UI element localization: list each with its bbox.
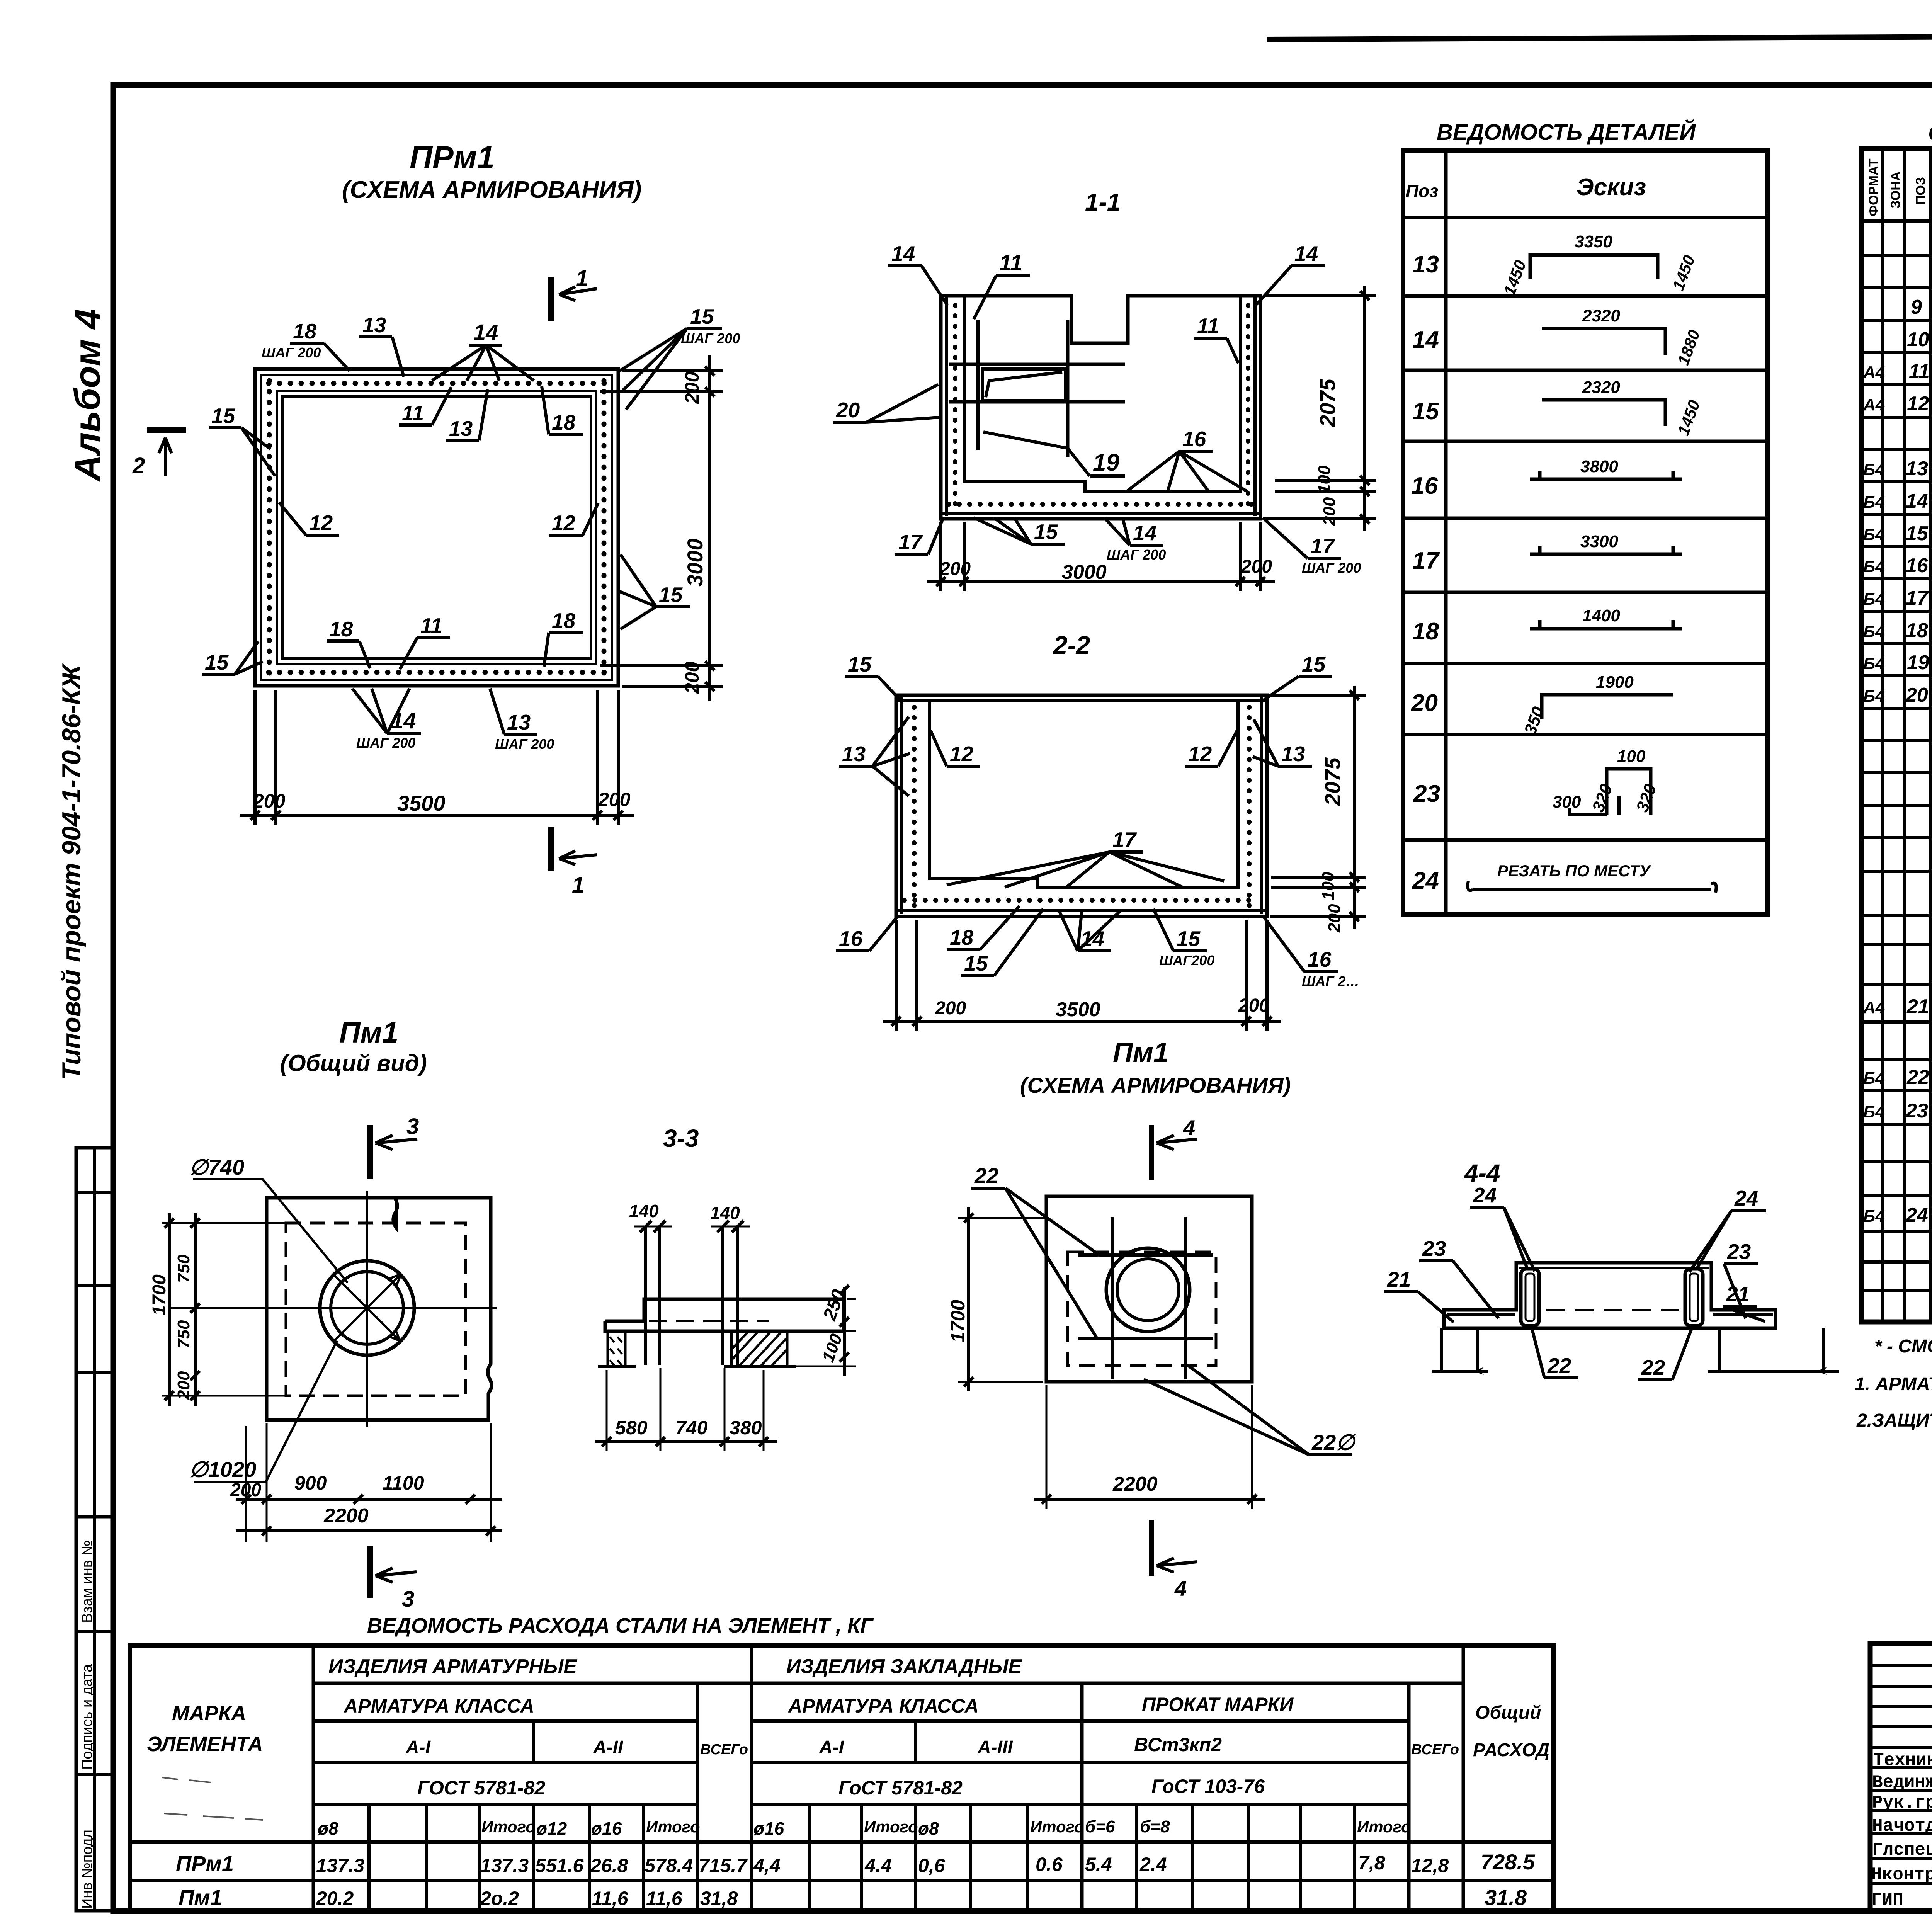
svg-text:ШАГ 2…: ШАГ 2… xyxy=(1302,973,1359,989)
section 1-1 horizontal rebars xyxy=(949,363,1125,366)
svg-text:2200: 2200 xyxy=(1112,1473,1158,1495)
svg-text:Спецификация к приямку ПРм1: Спецификация к приямку ПРм1 и к плите Пм… xyxy=(1928,120,1932,146)
svg-text:20*: 20* xyxy=(1905,684,1932,706)
svg-text:15*: 15* xyxy=(1906,522,1932,545)
svg-text:14: 14 xyxy=(891,241,915,265)
svg-text:100: 100 xyxy=(1315,465,1334,494)
svg-text:ГОСТ 5781-82: ГОСТ 5781-82 xyxy=(417,1777,545,1799)
svg-text:Вединж: Вединж xyxy=(1872,1772,1932,1793)
svg-text:ИЗДЕЛИЯ ЗАКЛАДНЫЕ: ИЗДЕЛИЯ ЗАКЛАДНЫЕ xyxy=(786,1655,1022,1678)
row 17 sketch xyxy=(1530,546,1682,554)
Pm1 scheme dashed rebar rect xyxy=(1068,1252,1216,1366)
svg-text:Б4: Б4 xyxy=(1863,557,1885,576)
svg-text:2о.2: 2о.2 xyxy=(480,1888,519,1909)
svg-text:15: 15 xyxy=(1034,520,1058,544)
svg-text:А-III: А-III xyxy=(977,1737,1013,1758)
Pm1 scheme plate outline xyxy=(1046,1196,1252,1382)
svg-text:1900: 1900 xyxy=(1596,673,1634,692)
1-1 bottom dimension extension lines xyxy=(939,522,942,591)
section 2-2 top second line xyxy=(896,699,1267,702)
svg-text:15: 15 xyxy=(1302,652,1326,676)
svg-text:3800: 3800 xyxy=(1580,457,1618,476)
4-4 left support xyxy=(1432,1328,1488,1371)
svg-text:5.4: 5.4 xyxy=(1085,1854,1112,1875)
svg-text:200: 200 xyxy=(939,559,971,579)
svg-text:ШАГ200: ШАГ200 xyxy=(1159,952,1214,968)
row 15 sketch xyxy=(1542,400,1665,426)
svg-text:Итого: Итого xyxy=(646,1818,700,1836)
PRm1 rebar dots bottom band xyxy=(269,670,606,675)
svg-text:551.6: 551.6 xyxy=(535,1855,584,1876)
section 1-1 vertical rebars xyxy=(976,320,980,450)
svg-text:200: 200 xyxy=(253,790,286,812)
svg-text:ФОРМАТ: ФОРМАТ xyxy=(1866,158,1881,216)
svg-text:22∅: 22∅ xyxy=(1311,1430,1356,1454)
row 14 sketch xyxy=(1542,328,1665,355)
parts list table outer xyxy=(1403,151,1768,914)
svg-text:ПОЗ: ПОЗ xyxy=(1913,177,1928,205)
svg-text:580: 580 xyxy=(615,1417,648,1439)
svg-text:31.8: 31.8 xyxy=(1485,1885,1527,1910)
svg-text:200: 200 xyxy=(681,661,703,694)
svg-text:ВСЕГо: ВСЕГо xyxy=(1411,1742,1459,1758)
4-4 right support xyxy=(1708,1328,1839,1371)
4-4 wing inner lines xyxy=(1447,1313,1515,1316)
svg-text:Б4: Б4 xyxy=(1863,1102,1885,1121)
svg-text:200: 200 xyxy=(1241,556,1272,577)
svg-text:ø12: ø12 xyxy=(536,1818,567,1838)
svg-text:7,8: 7,8 xyxy=(1358,1852,1385,1874)
svg-text:26.8: 26.8 xyxy=(590,1855,628,1876)
steel table verticals xyxy=(312,1645,315,1910)
title block outer xyxy=(1870,1643,1932,1910)
svg-text:380: 380 xyxy=(730,1417,762,1439)
svg-text:2200: 2200 xyxy=(323,1505,369,1527)
section mark 4 bottom xyxy=(1149,1520,1154,1576)
svg-text:11: 11 xyxy=(1197,314,1219,338)
4-4 left stirrup xyxy=(1521,1269,1539,1326)
svg-text:РАСХОД: РАСХОД xyxy=(1473,1740,1549,1760)
svg-text:14: 14 xyxy=(1133,521,1156,545)
svg-text:3: 3 xyxy=(402,1587,414,1612)
svg-text:12: 12 xyxy=(1188,742,1212,766)
Pm1 plate outline xyxy=(267,1198,492,1420)
svg-text:3: 3 xyxy=(406,1114,419,1139)
1-1 right dimension extension lines xyxy=(1264,294,1376,297)
svg-text:А4: А4 xyxy=(1863,395,1885,414)
section 2-2 slab rebar dots xyxy=(904,898,1259,903)
svg-text:Глспец: Глспец xyxy=(1872,1840,1932,1860)
right dimension extension lines xyxy=(622,369,723,372)
svg-text:12: 12 xyxy=(950,742,974,766)
svg-text:740: 740 xyxy=(675,1417,708,1439)
svg-text:ГИП: ГИП xyxy=(1871,1890,1903,1910)
svg-text:ШАГ 200: ШАГ 200 xyxy=(262,345,321,361)
svg-text:13: 13 xyxy=(507,710,531,734)
svg-text:Б4: Б4 xyxy=(1863,1207,1885,1226)
svg-text:728.5: 728.5 xyxy=(1481,1850,1535,1874)
svg-text:1100: 1100 xyxy=(383,1472,424,1494)
svg-text:14: 14 xyxy=(1412,327,1439,353)
left margin lower stamp boxes xyxy=(76,1517,113,1911)
svg-text:320: 320 xyxy=(1633,781,1660,815)
svg-text:Б4: Б4 xyxy=(1863,687,1885,706)
svg-text:11: 11 xyxy=(402,401,424,425)
specification table outer xyxy=(1861,149,1932,1322)
svg-text:Б4: Б4 xyxy=(1863,590,1885,609)
svg-text:17: 17 xyxy=(1311,534,1335,558)
4-4 top second line xyxy=(1519,1267,1709,1269)
svg-text:320: 320 xyxy=(1588,781,1616,815)
svg-text:Пм1: Пм1 xyxy=(179,1885,222,1910)
svg-text:ø8: ø8 xyxy=(918,1818,939,1838)
svg-text:3500: 3500 xyxy=(397,791,446,815)
right dimension line 200/3000/200 xyxy=(708,355,711,701)
svg-text:13: 13 xyxy=(1281,742,1305,766)
svg-text:3300: 3300 xyxy=(1580,532,1618,551)
svg-text:ø8: ø8 xyxy=(318,1818,338,1838)
svg-text:1700: 1700 xyxy=(947,1300,969,1343)
svg-text:0.6: 0.6 xyxy=(1036,1854,1063,1875)
svg-text:18: 18 xyxy=(293,319,317,343)
svg-text:2: 2 xyxy=(132,453,145,478)
svg-text:Поз: Поз xyxy=(1406,181,1439,201)
1-1 bottom dimension line 200/3000/200 xyxy=(927,580,1275,583)
svg-text:ø16: ø16 xyxy=(591,1818,622,1838)
PRm1 rebar dots right band xyxy=(602,381,607,674)
svg-text:13: 13 xyxy=(1412,251,1439,278)
svg-text:ЗОНА: ЗОНА xyxy=(1888,172,1903,209)
svg-text:1-1: 1-1 xyxy=(1085,188,1121,216)
svg-text:ИЗДЕЛИЯ АРМАТУРНЫЕ: ИЗДЕЛИЯ АРМАТУРНЫЕ xyxy=(328,1655,577,1678)
svg-text:Начотд: Начотд xyxy=(1872,1816,1932,1836)
Pm1 scheme vertical rebars xyxy=(1111,1217,1114,1379)
svg-text:24: 24 xyxy=(1734,1186,1758,1210)
svg-text:17: 17 xyxy=(898,530,923,554)
svg-text:б=6: б=6 xyxy=(1085,1817,1115,1836)
svg-text:140: 140 xyxy=(710,1203,740,1223)
svg-text:24: 24 xyxy=(1473,1183,1497,1207)
svg-text:20: 20 xyxy=(1411,690,1438,716)
svg-text:ВСт3кп2: ВСт3кп2 xyxy=(1134,1734,1222,1755)
3-3 anchor pipes xyxy=(644,1226,647,1365)
svg-text:200: 200 xyxy=(1320,497,1339,526)
svg-text:Б4: Б4 xyxy=(1863,493,1885,512)
section mark 4 top xyxy=(1149,1125,1154,1180)
svg-text:13: 13 xyxy=(842,742,866,766)
section mark 3 bottom xyxy=(367,1546,373,1598)
svg-text:б=8: б=8 xyxy=(1140,1817,1170,1836)
svg-text:21: 21 xyxy=(1387,1267,1411,1291)
svg-text:140: 140 xyxy=(629,1201,659,1221)
PRm1 rebar dots left band xyxy=(267,381,272,674)
svg-text:15: 15 xyxy=(690,304,714,328)
svg-text:1880: 1880 xyxy=(1674,327,1703,367)
section 1-1 pit inner face lines xyxy=(964,296,1240,492)
3-3 left hatched support xyxy=(608,1331,625,1366)
row 16 sketch: bar with end hooks xyxy=(1530,471,1682,479)
svg-text:21: 21 xyxy=(1906,995,1929,1018)
Pm1 scheme left dimension 1700 xyxy=(958,1217,1048,1219)
svg-text:Б4: Б4 xyxy=(1863,1069,1885,1088)
svg-text:Общий: Общий xyxy=(1475,1702,1541,1723)
2-2 bottom dimension extension lines xyxy=(895,920,898,1031)
section mark 2 left xyxy=(147,427,186,433)
parts list column divider xyxy=(1444,151,1448,914)
svg-text:МАРКА: МАРКА xyxy=(172,1702,246,1725)
svg-text:Рук.гр: Рук.гр xyxy=(1872,1793,1932,1813)
svg-text:Итого: Итого xyxy=(1030,1818,1084,1836)
svg-text:3500: 3500 xyxy=(1056,998,1100,1021)
svg-text:19: 19 xyxy=(1907,651,1929,674)
svg-text:12: 12 xyxy=(1907,393,1929,415)
svg-text:Б4: Б4 xyxy=(1863,654,1885,673)
section 1-1 embedded plate xyxy=(983,369,1065,401)
left margin upper stamp boxes xyxy=(76,1148,113,1517)
section 2-2 wall rebar dots xyxy=(912,707,917,908)
Pm1 inner dashed square xyxy=(286,1223,466,1396)
svg-text:16*: 16* xyxy=(1906,554,1932,577)
svg-text:23: 23 xyxy=(1413,781,1440,807)
svg-text:ø16: ø16 xyxy=(753,1818,784,1838)
svg-text:(СХЕМА АРМИРОВАНИЯ): (СХЕМА АРМИРОВАНИЯ) xyxy=(1020,1073,1291,1097)
steel table outer xyxy=(130,1645,1553,1910)
svg-text:(СХЕМА АРМИРОВАНИЯ): (СХЕМА АРМИРОВАНИЯ) xyxy=(342,177,641,203)
svg-text:12: 12 xyxy=(552,511,576,535)
svg-text:17*: 17* xyxy=(1906,587,1932,609)
specification column lines xyxy=(1881,149,1884,1322)
svg-text:А-I: А-I xyxy=(819,1737,845,1758)
svg-text:22: 22 xyxy=(1906,1066,1929,1088)
section mark 3 top xyxy=(367,1125,373,1179)
svg-text:ВЕДОМОСТЬ ДЕТАЛЕЙ: ВЕДОМОСТЬ ДЕТАЛЕЙ xyxy=(1437,119,1696,145)
svg-text:1400: 1400 xyxy=(1582,606,1620,625)
svg-text:Эскиз: Эскиз xyxy=(1577,174,1646,201)
svg-text:15: 15 xyxy=(1177,927,1201,951)
section 1-1 slab rebar dots xyxy=(949,502,1254,507)
svg-text:Итого: Итого xyxy=(1357,1818,1411,1836)
bottom dimension extension lines xyxy=(253,690,257,825)
svg-text:24*: 24* xyxy=(1905,1204,1932,1226)
svg-text:ГоСТ 5781-82: ГоСТ 5781-82 xyxy=(838,1777,963,1799)
svg-text:23: 23 xyxy=(1727,1240,1751,1264)
svg-text:4: 4 xyxy=(1174,1576,1187,1600)
svg-text:11: 11 xyxy=(1909,360,1930,383)
svg-text:14: 14 xyxy=(473,320,498,345)
svg-text:300: 300 xyxy=(1553,793,1581,811)
svg-text:13: 13 xyxy=(362,313,386,337)
svg-text:Б4: Б4 xyxy=(1863,525,1885,544)
svg-text:16: 16 xyxy=(1411,473,1438,499)
svg-text:ПРм1: ПРм1 xyxy=(410,140,495,175)
svg-text:1450: 1450 xyxy=(1669,253,1698,293)
svg-text:23*: 23* xyxy=(1905,1100,1932,1122)
row 13 sketch: bar with two down legs 1450 xyxy=(1530,255,1658,279)
svg-text:ВЕДОМОСТЬ РАСХОДА СТАЛИ НА: ВЕДОМОСТЬ РАСХОДА СТАЛИ НА ЭЛЕМЕНТ , КГ xyxy=(367,1614,874,1637)
section 2-2 pit inner face lines xyxy=(930,701,1238,887)
svg-text:Альбом 4: Альбом 4 xyxy=(67,309,107,482)
svg-text:12,8: 12,8 xyxy=(1411,1855,1449,1876)
svg-text:200: 200 xyxy=(1238,995,1269,1016)
svg-text:А-II: А-II xyxy=(593,1737,624,1758)
svg-text:Типовой проект 904-1-70.86-К: Типовой проект 904-1-70.86-КЖ xyxy=(57,663,86,1080)
2-2 right dimension extension lines xyxy=(1270,694,1366,697)
svg-text:750: 750 xyxy=(174,1254,193,1283)
4-4 dashed centerline xyxy=(1546,1309,1682,1311)
svg-text:20.2: 20.2 xyxy=(316,1888,354,1909)
2-2 right dimension line 2075/100/200 xyxy=(1353,686,1356,929)
svg-text:100: 100 xyxy=(1319,872,1338,900)
svg-text:21: 21 xyxy=(1726,1282,1750,1306)
specification header bottom xyxy=(1861,219,1932,223)
Pm1 bottom dimensions xyxy=(245,1426,247,1542)
svg-text:2320: 2320 xyxy=(1582,378,1620,397)
Pm1 scheme bottom dimension 2200 xyxy=(1046,1385,1048,1509)
section 1-1 pit outline with top notch xyxy=(941,296,1260,519)
svg-text:ВСЕГо: ВСЕГо xyxy=(700,1742,748,1758)
svg-text:АРМАТУРА КЛАССА: АРМАТУРА КЛАССА xyxy=(787,1695,979,1717)
svg-text:11,6: 11,6 xyxy=(592,1888,629,1909)
svg-text:11: 11 xyxy=(999,250,1022,276)
svg-text:1: 1 xyxy=(572,872,584,898)
svg-text:15: 15 xyxy=(1412,398,1439,425)
svg-text:1: 1 xyxy=(576,266,588,291)
sheet top edge line xyxy=(1267,34,1932,39)
svg-text:18*: 18* xyxy=(1906,619,1932,642)
svg-text:750: 750 xyxy=(174,1320,193,1349)
svg-text:100: 100 xyxy=(1617,747,1646,766)
row 18 sketch xyxy=(1530,620,1682,629)
PRm1 square slab outer double border xyxy=(255,369,618,686)
svg-text:ШАГ 200: ШАГ 200 xyxy=(356,735,415,751)
1-1 right dimension line 2075/100/200 xyxy=(1363,286,1366,531)
Pm1 inner circle xyxy=(331,1272,403,1344)
svg-text:22: 22 xyxy=(1547,1354,1571,1378)
svg-text:ШАГ 200: ШАГ 200 xyxy=(1302,560,1361,576)
svg-text:16: 16 xyxy=(839,927,863,951)
svg-text:11: 11 xyxy=(420,614,442,638)
4-4 right stirrup xyxy=(1685,1269,1703,1326)
svg-text:∅740: ∅740 xyxy=(189,1155,244,1179)
svg-text:14: 14 xyxy=(1294,241,1318,265)
svg-text:16: 16 xyxy=(1182,427,1206,451)
bottom dimension line 200/3500/200 xyxy=(240,814,634,817)
svg-text:1450: 1450 xyxy=(1500,258,1529,298)
svg-text:ШАГ 200: ШАГ 200 xyxy=(495,736,554,752)
svg-text:22: 22 xyxy=(1641,1355,1665,1379)
svg-text:2.4: 2.4 xyxy=(1139,1854,1167,1875)
svg-text:ПРОКАТ МАРКИ: ПРОКАТ МАРКИ xyxy=(1142,1694,1294,1715)
svg-text:3000: 3000 xyxy=(683,538,707,587)
svg-text:200: 200 xyxy=(681,371,703,404)
svg-text:ШАГ 200: ШАГ 200 xyxy=(681,330,740,346)
parts list row lines xyxy=(1403,216,1768,219)
svg-text:350: 350 xyxy=(1520,704,1548,737)
svg-text:Б4: Б4 xyxy=(1863,622,1885,641)
svg-text:23: 23 xyxy=(1422,1236,1446,1260)
svg-text:А4: А4 xyxy=(1863,998,1885,1017)
section mark 1 bottom xyxy=(548,827,554,871)
4-4 plate profile xyxy=(1444,1263,1776,1328)
svg-text:137.3: 137.3 xyxy=(480,1855,529,1876)
svg-text:12: 12 xyxy=(309,511,333,535)
svg-text:1450: 1450 xyxy=(1674,398,1703,438)
svg-text:900: 900 xyxy=(294,1472,327,1494)
svg-text:20: 20 xyxy=(836,398,860,422)
svg-text:14*: 14* xyxy=(1906,490,1932,512)
2-2 bottom dimension line 200/3500/200 xyxy=(883,1020,1281,1023)
svg-text:4: 4 xyxy=(1183,1116,1195,1140)
Pm1 scheme circles xyxy=(1106,1248,1190,1332)
svg-text:РЕЗАТЬ ПО МЕСТУ: РЕЗАТЬ ПО МЕСТУ xyxy=(1497,862,1652,880)
svg-text:13: 13 xyxy=(449,417,473,440)
svg-text:0,6: 0,6 xyxy=(918,1855,946,1876)
row 20 sketch xyxy=(1542,695,1673,719)
svg-text:9: 9 xyxy=(1911,296,1922,318)
svg-text:3000: 3000 xyxy=(1062,561,1107,583)
row 23 sketch: angle with box xyxy=(1570,769,1651,815)
3-3 right dimension 250/100 xyxy=(847,1298,856,1300)
svg-text:16: 16 xyxy=(1308,947,1332,971)
svg-text:Техник: Техник xyxy=(1873,1750,1932,1770)
svg-text:18: 18 xyxy=(1412,618,1439,645)
svg-text:Инв №подл: Инв №подл xyxy=(79,1830,95,1909)
svg-text:715.7: 715.7 xyxy=(699,1855,748,1876)
PRm1 rebar dots top band xyxy=(269,381,606,386)
Pm1 outer circle xyxy=(320,1261,414,1355)
svg-text:2075: 2075 xyxy=(1315,379,1340,427)
svg-text:22: 22 xyxy=(974,1163,998,1188)
3-3 bottom dimensions 580/740/380 xyxy=(606,1370,608,1451)
svg-text:18: 18 xyxy=(552,609,576,633)
svg-text:1. АРМАТУРУ В МЕСТАХ ОТВЕРС: 1. АРМАТУРУ В МЕСТАХ ОТВЕРСТИЙ ОБРЕЗАТЬ … xyxy=(1855,1373,1932,1395)
svg-text:200: 200 xyxy=(598,789,631,810)
svg-text:Нконтр: Нконтр xyxy=(1871,1865,1932,1885)
svg-text:24: 24 xyxy=(1412,867,1439,894)
svg-text:200: 200 xyxy=(1325,904,1344,933)
svg-text:Итого: Итого xyxy=(864,1818,918,1836)
Pm1 scheme horizontal rebars xyxy=(1078,1253,1213,1257)
steel table horizontals xyxy=(313,1682,1463,1685)
section 1-1 wall inner double lines xyxy=(945,296,948,516)
Pm1 left dimensions xyxy=(162,1222,288,1224)
svg-text:15: 15 xyxy=(848,652,872,676)
svg-text:4.4: 4.4 xyxy=(864,1855,892,1876)
svg-text:1700: 1700 xyxy=(149,1274,170,1316)
svg-text:15: 15 xyxy=(205,650,229,674)
Pm1 diameter arrows xyxy=(333,1274,401,1342)
svg-text:19: 19 xyxy=(1093,449,1119,476)
svg-text:15: 15 xyxy=(211,404,236,428)
svg-text:ШАГ 200: ШАГ 200 xyxy=(1107,547,1166,563)
svg-text:18: 18 xyxy=(552,410,576,434)
svg-text:200: 200 xyxy=(935,998,966,1019)
svg-text:10: 10 xyxy=(1907,328,1929,351)
svg-text:2-2: 2-2 xyxy=(1053,631,1090,659)
svg-text:* - СМОТРИТЕ ВЕДОМОСТЬ ДЕТАЛЕЙ: * - СМОТРИТЕ ВЕДОМОСТЬ ДЕТАЛЕЙ xyxy=(1874,1335,1932,1357)
svg-text:200: 200 xyxy=(230,1480,261,1500)
svg-text:АРМАТУРА КЛАССА: АРМАТУРА КЛАССА xyxy=(343,1695,534,1717)
3-3 plate profile xyxy=(605,1299,844,1331)
svg-text:11,6: 11,6 xyxy=(646,1888,683,1909)
svg-text:13*: 13* xyxy=(1906,457,1932,480)
svg-text:Итого: Итого xyxy=(481,1818,536,1836)
svg-text:15: 15 xyxy=(659,583,683,607)
svg-text:17: 17 xyxy=(1412,548,1440,574)
PRm1 inner double border xyxy=(277,391,596,664)
svg-text:15: 15 xyxy=(964,951,988,975)
section mark 1 top xyxy=(548,277,554,321)
